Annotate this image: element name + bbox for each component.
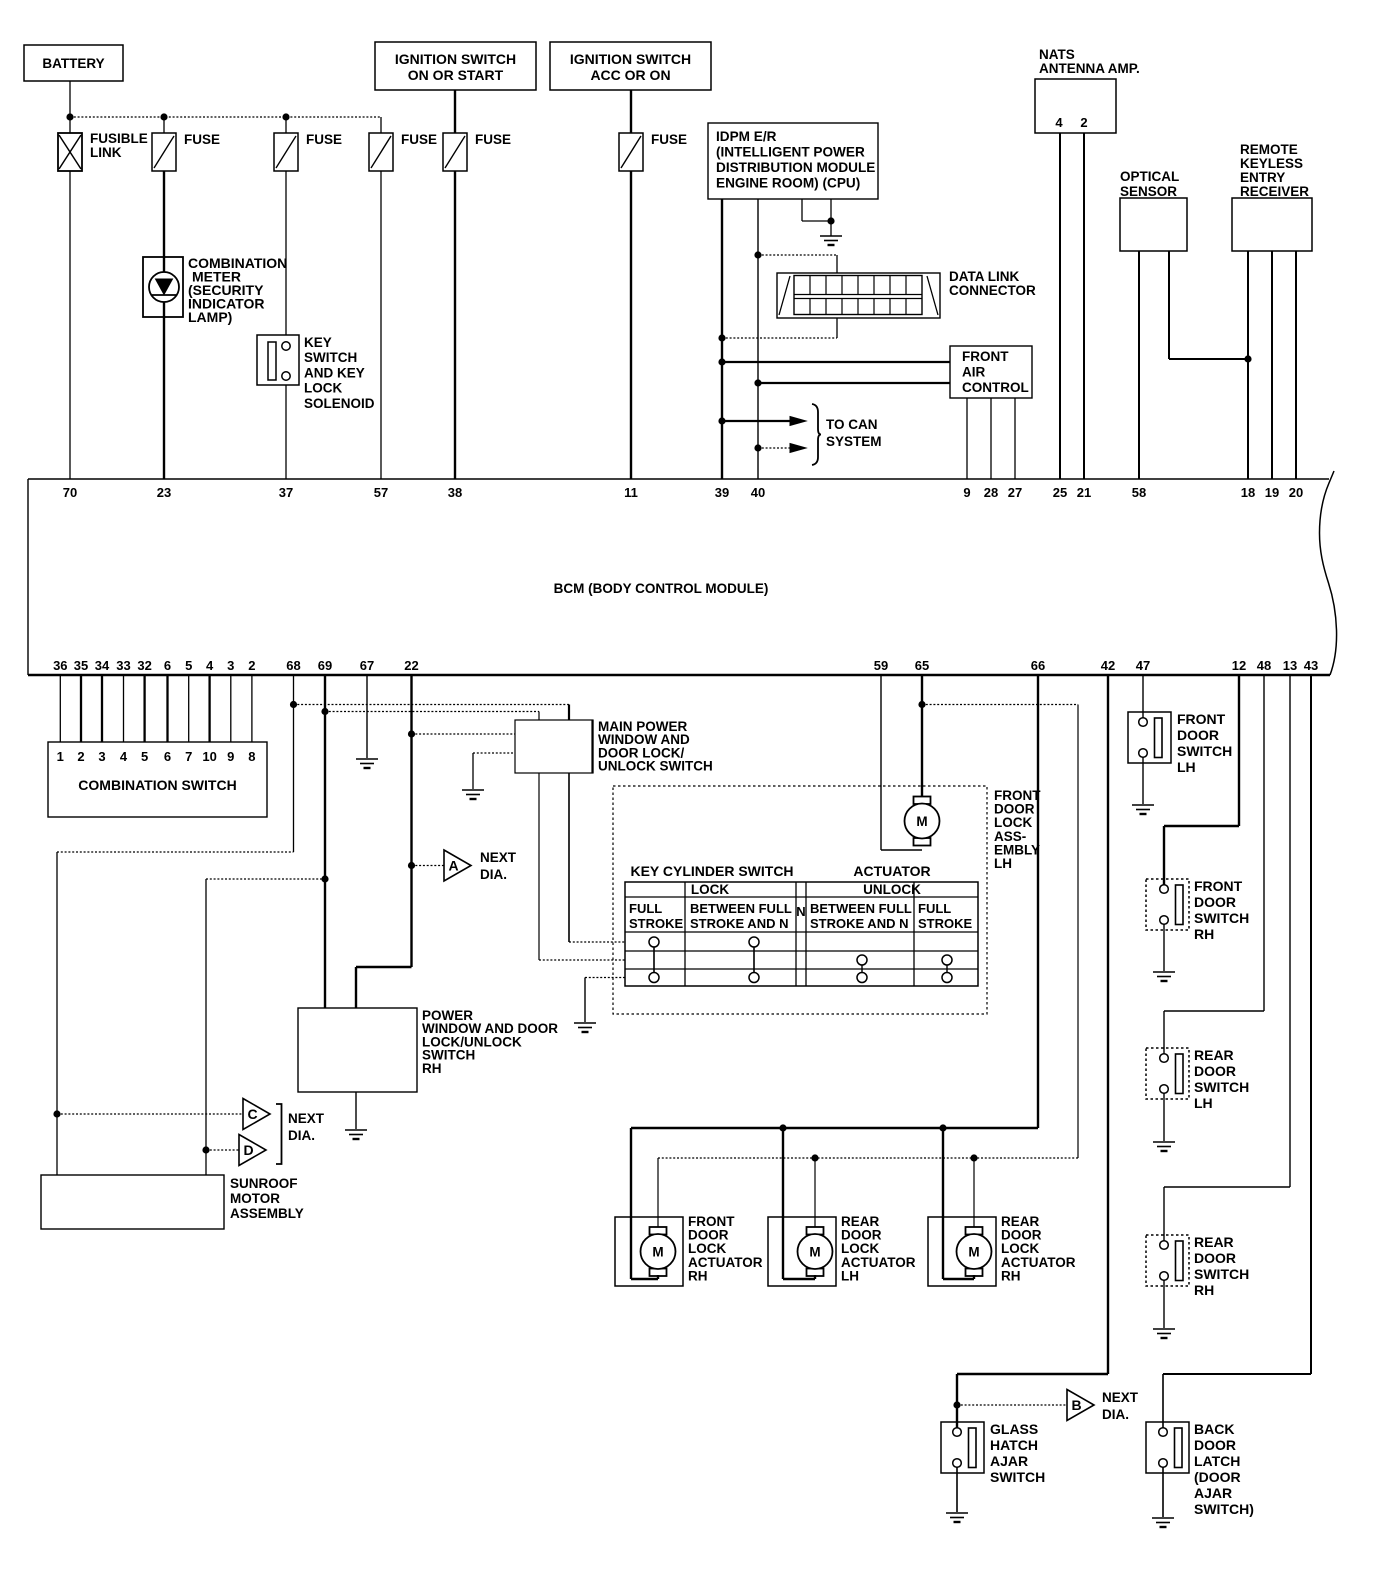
svg-text:SWITCH: SWITCH [1194, 910, 1249, 926]
svg-text:A: A [448, 858, 458, 874]
svg-text:47: 47 [1136, 658, 1150, 673]
svg-text:M: M [968, 1245, 979, 1260]
svg-text:37: 37 [279, 485, 293, 500]
svg-text:FUSE: FUSE [475, 132, 511, 147]
svg-text:66: 66 [1031, 658, 1045, 673]
svg-text:DATA LINK: DATA LINK [949, 269, 1019, 284]
svg-text:57: 57 [374, 485, 388, 500]
svg-text:TO CAN: TO CAN [826, 417, 878, 432]
svg-text:RH: RH [1194, 1282, 1214, 1298]
svg-text:9: 9 [963, 485, 970, 500]
svg-text:M: M [916, 814, 927, 829]
svg-text:FUSE: FUSE [184, 132, 220, 147]
svg-text:3: 3 [227, 658, 234, 673]
svg-text:KEY: KEY [304, 335, 332, 350]
svg-text:2: 2 [1080, 115, 1087, 130]
svg-text:(INTELLIGENT POWER: (INTELLIGENT POWER [716, 145, 865, 160]
svg-text:13: 13 [1283, 658, 1297, 673]
svg-text:FRONT: FRONT [1194, 878, 1243, 894]
svg-text:43: 43 [1304, 658, 1318, 673]
svg-text:DOOR: DOOR [1194, 894, 1236, 910]
svg-text:LAMP): LAMP) [188, 309, 232, 325]
svg-text:COMBINATION SWITCH: COMBINATION SWITCH [78, 777, 236, 793]
svg-text:SWITCH: SWITCH [304, 350, 357, 365]
svg-text:RH: RH [1194, 926, 1214, 942]
svg-text:5: 5 [185, 658, 192, 673]
svg-text:ACC OR ON: ACC OR ON [590, 67, 670, 83]
svg-text:OPTICAL: OPTICAL [1120, 169, 1179, 184]
svg-text:2: 2 [248, 658, 255, 673]
svg-text:LOCK: LOCK [691, 882, 729, 897]
svg-text:LH: LH [1194, 1095, 1213, 1111]
svg-text:DISTRIBUTION MODULE: DISTRIBUTION MODULE [716, 160, 875, 175]
svg-text:BACK: BACK [1194, 1421, 1234, 1437]
svg-text:23: 23 [157, 485, 171, 500]
svg-text:34: 34 [95, 658, 110, 673]
svg-text:12: 12 [1232, 658, 1246, 673]
svg-text:MOTOR: MOTOR [230, 1191, 280, 1206]
svg-text:RECEIVER: RECEIVER [1240, 184, 1309, 199]
svg-text:STROKE AND N: STROKE AND N [810, 916, 908, 931]
svg-text:DOOR: DOOR [1194, 1063, 1236, 1079]
svg-text:LOCK: LOCK [304, 381, 342, 396]
svg-text:40: 40 [751, 485, 765, 500]
svg-text:AJAR: AJAR [1194, 1485, 1232, 1501]
svg-text:LH: LH [1177, 759, 1196, 775]
svg-text:5: 5 [141, 749, 148, 764]
svg-text:DOOR: DOOR [1194, 1437, 1236, 1453]
svg-text:SOLENOID: SOLENOID [304, 396, 375, 411]
svg-text:1: 1 [57, 749, 64, 764]
svg-text:67: 67 [360, 658, 374, 673]
svg-text:7: 7 [185, 749, 192, 764]
svg-text:21: 21 [1077, 485, 1091, 500]
svg-text:33: 33 [116, 658, 130, 673]
svg-text:27: 27 [1008, 485, 1022, 500]
svg-text:BATTERY: BATTERY [42, 56, 104, 71]
svg-text:IGNITION SWITCH: IGNITION SWITCH [570, 51, 691, 67]
svg-text:3: 3 [98, 749, 105, 764]
svg-text:FULL: FULL [918, 901, 951, 916]
svg-text:69: 69 [318, 658, 332, 673]
svg-text:2: 2 [77, 749, 84, 764]
svg-text:REAR: REAR [1194, 1047, 1234, 1063]
svg-text:C: C [247, 1106, 257, 1122]
svg-text:19: 19 [1265, 485, 1279, 500]
svg-text:70: 70 [63, 485, 77, 500]
svg-text:32: 32 [137, 658, 151, 673]
svg-text:4: 4 [1055, 115, 1063, 130]
svg-text:DOOR: DOOR [1177, 727, 1219, 743]
svg-text:FUSIBLE: FUSIBLE [90, 131, 148, 146]
svg-text:B: B [1071, 1397, 1081, 1413]
svg-text:AND KEY: AND KEY [304, 365, 365, 380]
svg-text:D: D [243, 1142, 253, 1158]
svg-text:ON OR START: ON OR START [408, 67, 504, 83]
svg-text:4: 4 [120, 749, 128, 764]
svg-text:ENGINE ROOM) (CPU): ENGINE ROOM) (CPU) [716, 176, 860, 191]
svg-text:AIR: AIR [962, 365, 986, 380]
svg-text:IGNITION SWITCH: IGNITION SWITCH [395, 51, 516, 67]
svg-text:28: 28 [984, 485, 998, 500]
svg-text:RH: RH [1001, 1268, 1021, 1283]
svg-text:NATS: NATS [1039, 47, 1075, 62]
svg-text:8: 8 [248, 749, 255, 764]
svg-text:6: 6 [164, 658, 171, 673]
svg-text:SYSTEM: SYSTEM [826, 434, 882, 449]
svg-text:18: 18 [1241, 485, 1255, 500]
svg-text:UNLOCK SWITCH: UNLOCK SWITCH [598, 759, 713, 774]
svg-text:FRONT: FRONT [962, 349, 1009, 364]
svg-text:38: 38 [448, 485, 462, 500]
svg-text:LH: LH [994, 856, 1012, 871]
svg-text:25: 25 [1053, 485, 1067, 500]
svg-text:NEXT: NEXT [1102, 1390, 1139, 1405]
svg-text:ASSEMBLY: ASSEMBLY [230, 1206, 304, 1221]
svg-text:(DOOR: (DOOR [1194, 1469, 1241, 1485]
svg-text:LH: LH [841, 1268, 859, 1283]
svg-text:9: 9 [227, 749, 234, 764]
svg-text:BCM (BODY CONTROL MODULE): BCM (BODY CONTROL MODULE) [554, 581, 769, 596]
svg-text:LATCH: LATCH [1194, 1453, 1240, 1469]
svg-text:BETWEEN FULL: BETWEEN FULL [810, 901, 912, 916]
svg-text:59: 59 [874, 658, 888, 673]
svg-text:REMOTE: REMOTE [1240, 142, 1298, 157]
svg-text:RH: RH [422, 1061, 442, 1076]
svg-text:DIA.: DIA. [1102, 1407, 1129, 1422]
svg-text:CONTROL: CONTROL [962, 380, 1029, 395]
svg-text:22: 22 [404, 658, 418, 673]
svg-text:42: 42 [1101, 658, 1115, 673]
svg-text:UNLOCK: UNLOCK [863, 882, 921, 897]
svg-text:6: 6 [164, 749, 171, 764]
svg-text:SWITCH): SWITCH) [1194, 1501, 1254, 1517]
svg-text:STROKE: STROKE [918, 916, 973, 931]
svg-text:DIA.: DIA. [288, 1128, 315, 1143]
svg-text:RH: RH [688, 1268, 708, 1283]
svg-text:STROKE: STROKE [629, 916, 684, 931]
svg-text:LINK: LINK [90, 145, 122, 160]
svg-text:STROKE AND N: STROKE AND N [690, 916, 788, 931]
svg-text:65: 65 [915, 658, 929, 673]
svg-text:SUNROOF: SUNROOF [230, 1176, 298, 1191]
svg-text:ANTENNA AMP.: ANTENNA AMP. [1039, 61, 1140, 76]
svg-text:FUSE: FUSE [401, 132, 437, 147]
svg-text:48: 48 [1257, 658, 1271, 673]
svg-text:BETWEEN FULL: BETWEEN FULL [690, 901, 792, 916]
svg-text:SWITCH: SWITCH [1194, 1079, 1249, 1095]
svg-text:SENSOR: SENSOR [1120, 184, 1177, 199]
svg-text:N: N [796, 904, 805, 919]
svg-text:FRONT: FRONT [1177, 711, 1226, 727]
svg-text:KEY CYLINDER SWITCH: KEY CYLINDER SWITCH [630, 863, 793, 879]
svg-text:SWITCH: SWITCH [1194, 1266, 1249, 1282]
svg-text:39: 39 [715, 485, 729, 500]
svg-text:35: 35 [74, 658, 88, 673]
svg-text:DIA.: DIA. [480, 867, 507, 882]
svg-text:SWITCH: SWITCH [1177, 743, 1232, 759]
svg-text:KEYLESS: KEYLESS [1240, 156, 1303, 171]
svg-text:ENTRY: ENTRY [1240, 170, 1285, 185]
svg-text:CONNECTOR: CONNECTOR [949, 283, 1036, 298]
svg-text:10: 10 [202, 749, 216, 764]
svg-text:FULL: FULL [629, 901, 662, 916]
svg-text:36: 36 [53, 658, 67, 673]
svg-text:REAR: REAR [1194, 1234, 1234, 1250]
svg-text:ACTUATOR: ACTUATOR [853, 863, 930, 879]
svg-text:DOOR: DOOR [1194, 1250, 1236, 1266]
svg-text:4: 4 [206, 658, 214, 673]
svg-text:IDPM E/R: IDPM E/R [716, 129, 777, 144]
svg-text:M: M [652, 1245, 663, 1260]
svg-text:58: 58 [1132, 485, 1146, 500]
svg-text:HATCH: HATCH [990, 1437, 1038, 1453]
svg-text:68: 68 [286, 658, 300, 673]
svg-text:FUSE: FUSE [306, 132, 342, 147]
svg-text:FUSE: FUSE [651, 132, 687, 147]
svg-text:20: 20 [1289, 485, 1303, 500]
svg-text:NEXT: NEXT [288, 1111, 325, 1126]
svg-text:11: 11 [624, 485, 638, 500]
svg-text:M: M [809, 1245, 820, 1260]
svg-text:AJAR: AJAR [990, 1453, 1028, 1469]
svg-text:SWITCH: SWITCH [990, 1469, 1045, 1485]
svg-text:GLASS: GLASS [990, 1421, 1038, 1437]
svg-text:NEXT: NEXT [480, 850, 517, 865]
